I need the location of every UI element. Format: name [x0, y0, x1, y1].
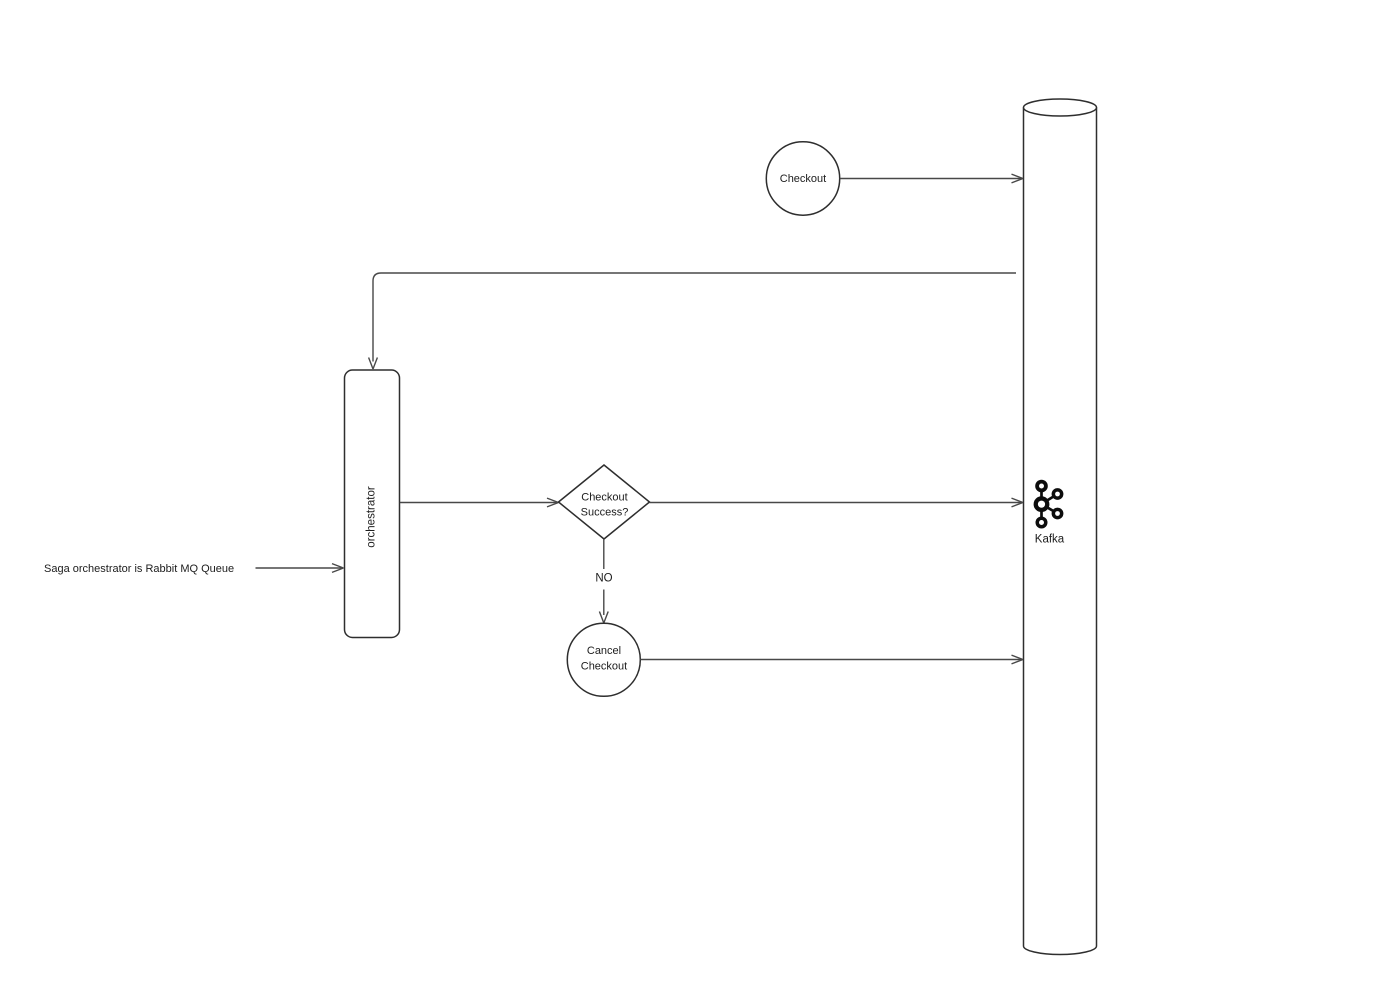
wire diamond NO to Cancel Checkout	[599, 539, 608, 623]
label Cancel Checkout	[581, 645, 627, 673]
svg-text:Cancel: Cancel	[587, 645, 621, 657]
arrow Checkout to Kafka	[840, 174, 1023, 183]
label Checkout Success?	[581, 492, 629, 519]
svg-text:Saga orchestrator is Rabbit MQ: Saga orchestrator is Rabbit MQ Queue	[44, 563, 234, 575]
cylinder Kafka queue	[1024, 99, 1097, 955]
rectangle orchestrator	[345, 370, 400, 638]
svg-text:NO: NO	[595, 573, 612, 585]
svg-text:Checkout: Checkout	[581, 492, 627, 504]
Kafka logo	[1034, 480, 1064, 529]
svg-text:Success?: Success?	[581, 507, 629, 519]
svg-text:Kafka: Kafka	[1035, 534, 1065, 546]
svg-text:orchestrator: orchestrator	[366, 486, 378, 548]
diamond Checkout Success?	[559, 465, 650, 539]
circle Cancel Checkout	[567, 623, 640, 696]
circle Checkout	[766, 142, 839, 215]
arrow diamond to Kafka	[650, 498, 1024, 507]
wire feedback Kafka to orchestrator	[369, 273, 1016, 369]
arrow Cancel Checkout to Kafka	[640, 655, 1023, 664]
arrow orchestrator to diamond	[400, 498, 559, 507]
arrow note to orchestrator	[256, 564, 344, 573]
svg-text:Checkout: Checkout	[581, 661, 627, 673]
svg-text:Checkout: Checkout	[780, 173, 826, 185]
